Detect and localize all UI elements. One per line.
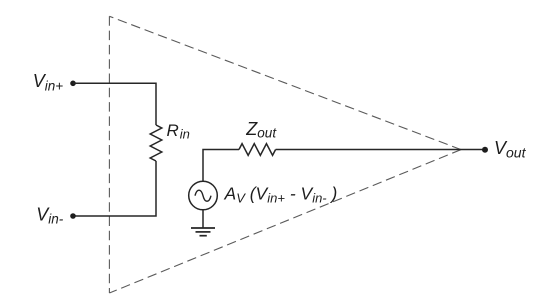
svg-text:Vin-: Vin- <box>36 204 64 226</box>
op-amp dashed triangle outline: bottom edge <box>109 150 461 293</box>
wire source bottom to ground <box>202 210 204 228</box>
op-amp dashed triangle outline: left edge <box>108 16 110 293</box>
svg-text:Vin+: Vin+ <box>33 71 64 93</box>
wire Vin+ lead <box>73 83 156 125</box>
wire source top lead <box>203 150 239 182</box>
node Vout terminal dot <box>482 147 488 153</box>
svg-text:AV (Vin+ - Vin- ): AV (Vin+ - Vin- ) <box>224 183 338 205</box>
op-amp dashed triangle outline: top edge <box>109 16 461 149</box>
svg-text:Rin: Rin <box>167 121 190 142</box>
wire Rin bottom to Vin- lead <box>73 161 156 216</box>
sine symbol inside source <box>195 190 211 201</box>
svg-text:Zout: Zout <box>245 119 277 141</box>
node Vin- terminal dot <box>70 213 76 219</box>
node Vin+ terminal dot <box>70 81 76 87</box>
resistor Zout <box>239 144 276 156</box>
wire Zout to output <box>276 149 485 151</box>
ground <box>191 227 215 229</box>
resistor Rin <box>150 125 162 161</box>
voltage source U1 (dependent source Av(Vin+ - Vin-)) <box>189 181 218 210</box>
svg-text:Vout: Vout <box>494 138 527 160</box>
